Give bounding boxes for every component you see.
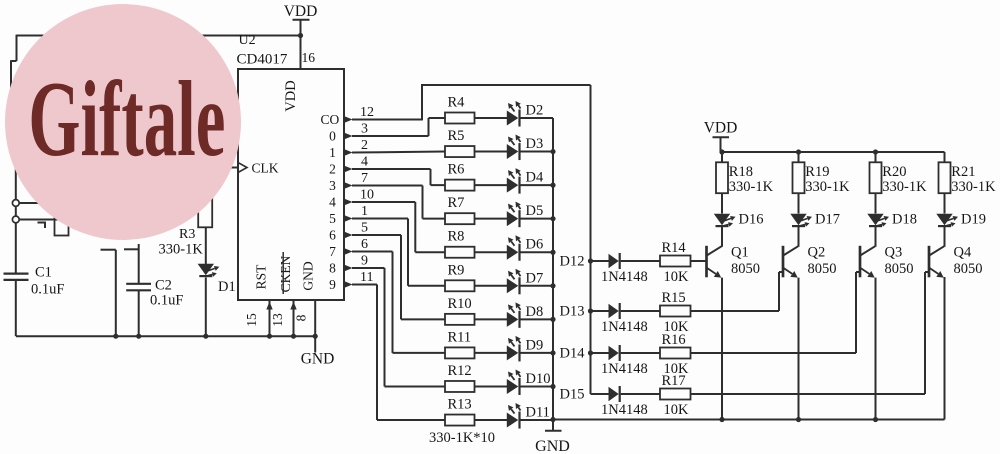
- op-amp U2 CD4017 counter: [237, 33, 345, 300]
- LED D8: [507, 302, 543, 328]
- node junction C2-rail: [136, 334, 141, 339]
- resistor R8: [445, 229, 475, 258]
- diode D14 1N4148: [560, 345, 661, 377]
- wire IC pin 1 to R9: [352, 219, 445, 286]
- ground GND middle: [535, 420, 570, 454]
- node junction bus D13: [588, 308, 593, 313]
- resistor R5: [445, 128, 475, 157]
- wire fragment Q-emitter stub: [101, 250, 116, 337]
- wire R4 to D2: [475, 117, 508, 119]
- svg-text:Giftale: Giftale: [28, 60, 225, 179]
- wire IC pin 9 to R12: [352, 268, 445, 386]
- wire D3 cathode: [521, 151, 554, 153]
- resistor R21: [939, 152, 997, 195]
- LED D16: [714, 193, 764, 246]
- wire IC pin 2 to R5: [352, 151, 445, 154]
- wire R7 to D5: [475, 218, 508, 220]
- wire R16 to Q3 base: [691, 272, 861, 353]
- wire CLK input: [222, 167, 238, 169]
- wire D11 cathode: [521, 419, 554, 421]
- node junction bus D3: [550, 149, 555, 154]
- wire ground rail left: [16, 335, 315, 337]
- wire R8 to D6: [475, 251, 508, 253]
- node junction bus D12: [588, 258, 593, 263]
- wire D10 cathode: [521, 385, 554, 387]
- node junction bus D7: [550, 283, 555, 288]
- wire D4 cathode: [521, 184, 554, 186]
- resistor R17: [660, 373, 691, 418]
- resistor R4: [445, 95, 475, 124]
- wire fragment R2 corner: [38, 223, 46, 229]
- LED D6: [507, 235, 543, 260]
- resistor R20: [870, 152, 928, 195]
- node junction rail Q2: [796, 149, 801, 154]
- LED D4: [507, 168, 544, 194]
- wire LED cathode bus: [552, 118, 554, 420]
- node junction pin15-rail: [267, 334, 272, 339]
- resistor R11: [445, 329, 475, 358]
- resistor R1 (partly hidden): [55, 205, 69, 236]
- LED D3: [507, 135, 543, 161]
- LED D9: [507, 336, 543, 362]
- transistor Q4 8050: [929, 226, 983, 420]
- node junction bus D14: [588, 350, 593, 355]
- node junction bus D9: [550, 350, 555, 355]
- resistor R7: [445, 195, 475, 224]
- node junction bus D4: [550, 183, 555, 188]
- wire CO to diode bus: [352, 85, 591, 394]
- node junction bus D6: [550, 250, 555, 255]
- wire R13 to D11: [475, 419, 508, 421]
- wire R11 to D9: [475, 352, 508, 354]
- node IC output pins with numbers: [345, 105, 375, 288]
- diode D15 1N4148: [560, 386, 661, 418]
- LED D1: [198, 227, 236, 336]
- wire R5 to D3: [475, 151, 508, 153]
- LED D10: [507, 369, 551, 395]
- LED D18: [867, 193, 917, 246]
- resistor R14: [660, 240, 691, 285]
- LED D5: [507, 202, 543, 228]
- wire IC pin 6 to R11: [352, 252, 445, 353]
- wire IC pin 4 to R6: [352, 169, 445, 185]
- wire D5 cathode: [521, 218, 554, 220]
- node junction pin13-rail: [291, 334, 296, 339]
- node junction VDD-pin16: [298, 33, 303, 38]
- node junction stub-rail: [113, 334, 118, 339]
- resistor R12: [445, 363, 475, 392]
- node input terminal J1: [12, 200, 52, 207]
- wire left border: [10, 35, 16, 273]
- wire R15 to Q2 base: [691, 272, 784, 311]
- node junction rail Q3 emitter: [873, 417, 878, 422]
- power VDD (IC): [284, 3, 318, 69]
- resistor R15: [660, 290, 691, 335]
- wire VDD rail top-left: [17, 35, 301, 37]
- node junction rail Q1: [719, 149, 724, 154]
- wire R6 to D4: [475, 184, 508, 186]
- node junction GND-rail: [313, 334, 318, 339]
- resistor R9: [445, 262, 475, 291]
- LED D7: [507, 269, 543, 295]
- watermark circle: [5, 4, 241, 240]
- node junction D1-rail: [203, 334, 208, 339]
- LED D2: [507, 101, 543, 127]
- node pin 13 CKEN: [270, 300, 297, 336]
- node pin 15 RST: [244, 300, 273, 336]
- resistor R18: [716, 152, 774, 195]
- wire R10 to D8: [475, 318, 508, 320]
- resistor R16: [660, 332, 691, 377]
- diode D13 1N4148: [560, 303, 661, 335]
- LED D17: [790, 193, 840, 246]
- LED D19: [936, 193, 986, 246]
- wire R17 to Q4 base: [691, 272, 930, 394]
- node junction bus D8: [550, 317, 555, 322]
- wire IC pin 11 to R13: [352, 285, 445, 421]
- node junction rail Q2 emitter: [796, 417, 801, 422]
- resistor R13: [445, 397, 475, 426]
- resistor R19: [793, 152, 851, 195]
- node junction bus-rail: [550, 417, 555, 422]
- node junction bus D5: [550, 216, 555, 221]
- wire D6 cathode: [521, 251, 554, 253]
- wire R14 to Q1 base: [691, 260, 706, 262]
- resistor R10: [445, 296, 475, 325]
- capacitor C1: [4, 265, 65, 337]
- resistor R3: [159, 196, 213, 258]
- node pin 8 GND: [293, 300, 315, 336]
- capacitor C2: [124, 244, 183, 336]
- node input terminal J2: [12, 216, 62, 223]
- wire R9 to D7: [475, 285, 508, 287]
- wire D8 cathode: [521, 318, 554, 320]
- diode D12 1N4148: [560, 253, 661, 285]
- wire IC pin 5 to R10: [352, 235, 445, 319]
- wire IC pin 7 to R7: [352, 186, 445, 219]
- wire D9 cathode: [521, 352, 554, 354]
- wire VDD rail right: [722, 151, 945, 153]
- wire D7 cathode: [521, 285, 554, 287]
- transistor Q2 8050: [783, 226, 837, 420]
- value label 330-1K*10: [429, 430, 495, 446]
- wire IC pin 10 to R8: [352, 202, 445, 252]
- resistor R6: [445, 162, 475, 191]
- ground GND left: [301, 336, 335, 367]
- node junction bus D10: [550, 384, 555, 389]
- wire R12 to D10: [475, 385, 508, 387]
- wire D2 cathode: [521, 117, 554, 119]
- node junction rail Q3: [873, 149, 878, 154]
- LED D11: [507, 403, 550, 429]
- wire IC pin 3 to R4: [352, 118, 445, 136]
- transistor Q3 8050: [860, 226, 914, 420]
- power VDD (driver): [704, 120, 738, 153]
- wire emitter ground rail: [553, 277, 945, 420]
- transistor Q1 8050: [707, 226, 761, 420]
- node junction rail Q1 emitter: [719, 417, 724, 422]
